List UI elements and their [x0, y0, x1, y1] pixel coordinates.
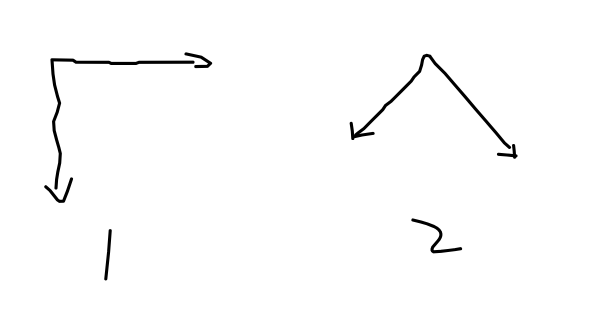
- arrow 1 vertical shaft: [52, 60, 60, 188]
- arrow 2 right arrowhead horizontal barb: [499, 154, 517, 156]
- arrow 1 down arrowhead: [46, 179, 72, 201]
- arrow 2 left arm (peak to lower-left): [356, 55, 430, 135]
- label 1: [106, 231, 110, 279]
- arrow 2 right arrowhead vertical barb: [514, 146, 515, 158]
- arrow 2 right arm (peak to lower-right): [430, 56, 510, 147]
- arrow 1 horizontal shaft: [52, 60, 193, 64]
- arrow 1 right arrowhead: [186, 54, 211, 67]
- arrow 2 left arrowhead horizontal barb: [354, 133, 373, 136]
- label 2: [413, 220, 461, 252]
- arrow 2 left arrowhead vertical barb: [351, 123, 353, 138]
